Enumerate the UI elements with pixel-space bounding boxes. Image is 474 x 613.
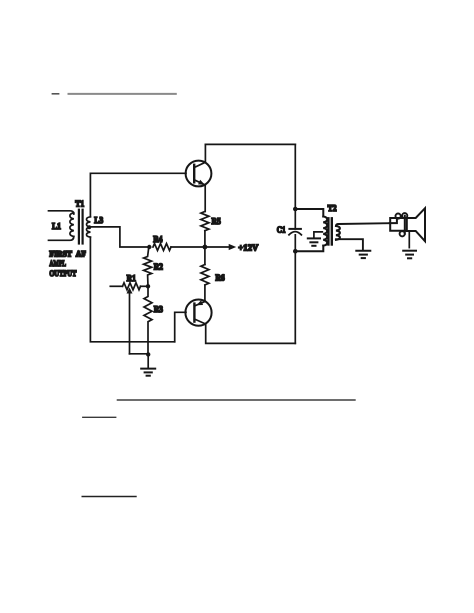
loudspeaker LS — [390, 208, 425, 241]
wire L3 tap to R4 node — [89, 227, 148, 247]
wire speaker to ground — [408, 232, 410, 248]
wire T2 center tap — [314, 232, 322, 238]
svg-text:C1: C1 — [277, 225, 286, 235]
label R6 — [215, 273, 225, 283]
svg-text:OUTPUT: OUTPUT — [49, 269, 76, 278]
transformer T1 label — [75, 198, 84, 208]
wire lower rail up to Q2 base — [175, 312, 186, 342]
svg-text:R3: R3 — [154, 304, 164, 314]
node R1/R2/R3 junction — [146, 284, 150, 288]
node L3 center tap — [87, 225, 91, 229]
horizontal rule bottom short 1 — [83, 416, 116, 418]
resistor R6 — [201, 265, 209, 302]
horizontal rule short top-left — [52, 93, 58, 95]
svg-text:T1: T1 — [75, 198, 84, 208]
svg-text:FIRST AF: FIRST AF — [49, 250, 86, 259]
+12V supply arrow — [207, 242, 259, 252]
resistor R5 — [201, 212, 209, 248]
resistor R2 — [144, 247, 152, 286]
winding L1 (T1 primary) — [49, 211, 74, 241]
svg-text:R6: R6 — [215, 273, 225, 283]
winding T2 secondary — [336, 226, 340, 240]
resistor R4 — [153, 244, 203, 251]
resistor R3 — [144, 286, 152, 354]
wire Q1 collector riser — [204, 144, 206, 162]
svg-text:R1: R1 — [127, 273, 137, 283]
label L3 — [94, 215, 103, 225]
wire right bus upper — [294, 144, 296, 229]
wire L3 top to Q1 base — [90, 173, 186, 217]
label R5 — [212, 216, 222, 226]
wire T2 primary top lead — [295, 209, 323, 217]
ground below R3 — [141, 354, 155, 375]
wire Q1 emitter to R5 — [204, 185, 206, 212]
capacitor C1 — [289, 229, 301, 235]
node bus upper junction — [293, 207, 298, 212]
svg-text:R5: R5 — [212, 216, 222, 226]
wire Q2 collector down and right to bus — [206, 324, 296, 344]
label R2 — [154, 262, 164, 272]
core of transformer T2 — [328, 218, 331, 244]
svg-text:L3: L3 — [94, 215, 103, 225]
winding T2 primary — [323, 217, 327, 246]
horizontal rule bottom long — [118, 399, 355, 401]
svg-text:L1: L1 — [52, 221, 61, 231]
horizontal rule top — [69, 93, 176, 95]
wire right bus lower — [294, 235, 296, 344]
label R3 — [154, 304, 164, 314]
winding L3 (T1 secondary) — [87, 217, 91, 237]
node ground junction — [146, 352, 150, 356]
potentiometer R1 — [110, 283, 148, 354]
label R1 — [127, 273, 137, 283]
node +12V junction — [203, 245, 208, 250]
label L1 — [52, 221, 61, 231]
ground below speaker — [403, 251, 416, 259]
wire L3 bottom down to lower rail — [90, 237, 174, 342]
svg-text:+12V: +12V — [238, 242, 258, 252]
wire top rail — [205, 143, 295, 145]
transformer T2 label — [328, 203, 337, 213]
wire +12V node to R6 — [204, 247, 206, 265]
node bus lower junction — [293, 249, 298, 254]
wire T2 primary bottom lead — [295, 246, 323, 252]
label C1 — [277, 225, 286, 235]
transistor Q1 — [186, 161, 212, 187]
core of transformer T1 — [79, 210, 83, 244]
horizontal rule bottom short 2 — [82, 496, 136, 498]
svg-text:T2: T2 — [328, 203, 337, 213]
transistor Q2 — [185, 300, 211, 326]
text FIRST AF AMPL OUTPUT — [49, 250, 86, 279]
svg-text:AMPL: AMPL — [49, 259, 66, 268]
ground at T2 center tap — [308, 238, 320, 245]
ground below T2 secondary — [356, 251, 370, 258]
svg-text:R4: R4 — [153, 234, 163, 244]
wire R1 wiper to ground node — [130, 353, 149, 355]
wire T2 secondary bottom to ground — [336, 239, 363, 249]
svg-text:R2: R2 — [154, 262, 164, 272]
node R4/R2 junction — [147, 245, 151, 249]
wire T2 secondary top to speaker — [336, 223, 390, 226]
label R4 — [153, 234, 163, 244]
